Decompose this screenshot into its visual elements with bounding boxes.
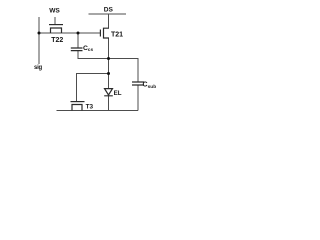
wire node A rail: T22 source-drain to T21 gate [39, 32, 100, 34]
svg-text:T22: T22 [51, 37, 63, 44]
transistor T3 channel [72, 105, 82, 111]
wire node C to T3 gate [77, 74, 109, 102]
diode EL [104, 89, 113, 96]
wire WS gate lead [54, 17, 56, 25]
wire Csub bottom lead [137, 85, 139, 111]
transistor T21 channel [104, 28, 110, 38]
transistor T21 gate bar [99, 30, 101, 37]
wire Ccs bottom to node B [78, 51, 109, 59]
capacitor Ccs plates [71, 48, 83, 51]
junction dot Ccs tap [77, 32, 80, 35]
svg-text:WS: WS [49, 7, 60, 14]
junction dot sig/T22 [38, 32, 41, 35]
svg-text:sub: sub [148, 84, 157, 90]
transistor T3 gate bar [71, 101, 85, 103]
transistor T22 gate bar [49, 24, 63, 26]
wire DS bus line [89, 13, 127, 15]
svg-text:sig: sig [34, 65, 43, 71]
transistor T22 channel [51, 28, 62, 33]
junction node B [107, 57, 110, 60]
wire Ccs top tap [77, 33, 79, 48]
svg-text:T3: T3 [86, 103, 94, 110]
svg-text:EL: EL [114, 90, 122, 97]
wire node B to Csub [109, 59, 139, 83]
junction node C [107, 72, 110, 75]
wire sig signal line [38, 17, 40, 64]
svg-text:T21: T21 [111, 31, 123, 38]
wire DS tap to T21 drain [108, 14, 110, 28]
svg-text:cs: cs [88, 48, 94, 53]
svg-text:DS: DS [104, 7, 114, 14]
wire EL cathode lead [108, 96, 110, 111]
wire T21 source down through node B and node C to EL anode [108, 38, 110, 89]
capacitor Csub plates [132, 82, 144, 85]
wire bottom cathode rail [57, 110, 139, 112]
